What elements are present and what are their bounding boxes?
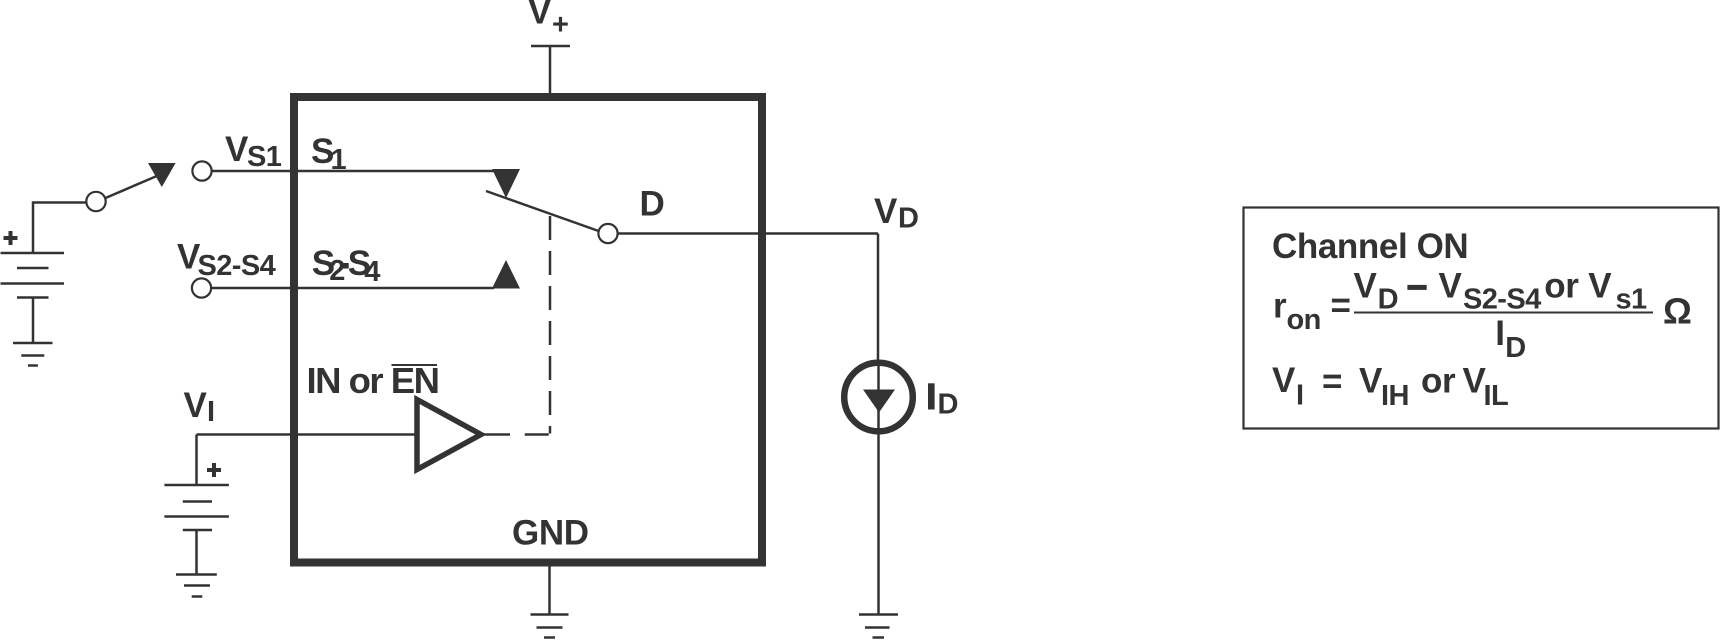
formula: VI condition — [1272, 361, 1508, 412]
node VS1 label — [225, 130, 282, 173]
switch contact S2-S4 (arrow up) — [492, 260, 520, 289]
svg-text:V: V — [1354, 267, 1378, 306]
svg-text:V: V — [1588, 267, 1612, 306]
svg-text:Channel ON: Channel ON — [1272, 227, 1468, 266]
wire VS1 to S1 contact — [212, 170, 494, 173]
svg-text:V: V — [1272, 361, 1296, 400]
svg-text:V: V — [225, 130, 249, 169]
svg-text:V: V — [1439, 267, 1463, 306]
ground (battery VI) — [176, 575, 217, 597]
svg-text:on: on — [1287, 304, 1321, 336]
svg-text:=: = — [1322, 362, 1342, 401]
ID label — [928, 383, 958, 420]
wire battery VI to ground — [195, 530, 198, 575]
wire battery source to ground — [32, 298, 35, 344]
svg-text:or: or — [1421, 362, 1456, 401]
svg-text:V: V — [1359, 362, 1383, 401]
battery VI plus sign — [207, 463, 221, 477]
ground (GND) — [531, 615, 569, 638]
svg-text:I: I — [207, 396, 214, 428]
terminal circle VS1 — [192, 161, 211, 180]
formula box — [1244, 208, 1719, 429]
V+ terminal bar — [531, 45, 570, 48]
DUT box — [294, 97, 762, 563]
node VI label — [184, 386, 215, 428]
svg-text:S1: S1 — [247, 141, 282, 173]
svg-text:IL: IL — [1484, 380, 1509, 412]
svg-text:V: V — [528, 0, 552, 32]
wire current source to ground — [877, 428, 880, 614]
wire VS2-S4 to S2-S4 contact — [211, 287, 494, 290]
wire VD down to current source — [877, 234, 880, 367]
svg-text:IH: IH — [1381, 380, 1409, 412]
battery source plus sign — [4, 231, 18, 245]
svg-text:Ω: Ω — [1663, 291, 1692, 332]
driver buffer IN or EN — [417, 400, 481, 470]
wire GND to ground — [548, 563, 551, 615]
svg-text:+: + — [552, 9, 568, 41]
switch blade S1 to D — [486, 191, 600, 232]
buffer output stub — [481, 433, 510, 436]
svg-text:D: D — [1505, 332, 1525, 364]
wire V+ to box — [549, 46, 552, 95]
svg-text:I: I — [1495, 314, 1504, 353]
switch arrow (source) — [148, 163, 176, 187]
SPDT source switch pivot — [86, 192, 105, 211]
terminal circle VS2-S4 — [192, 278, 211, 297]
svg-text:IN or EN: IN or EN — [307, 360, 439, 401]
svg-text:1: 1 — [331, 144, 347, 176]
dashed control line vertical — [549, 216, 552, 434]
svg-text:V: V — [184, 386, 208, 425]
wire switch to battery — [33, 203, 86, 254]
wire VI down to battery — [195, 435, 198, 486]
svg-text:D: D — [1378, 284, 1398, 316]
svg-text:4: 4 — [364, 256, 380, 288]
svg-text:or: or — [1544, 267, 1579, 306]
svg-text:V: V — [874, 192, 898, 231]
switch blade (source) — [106, 176, 159, 199]
ground (current source) — [859, 615, 898, 638]
pin S1 label — [311, 132, 347, 176]
svg-text:GND: GND — [512, 514, 589, 553]
svg-text:S2-S4: S2-S4 — [198, 250, 276, 282]
switch contact S1 (arrow down) — [492, 169, 520, 198]
svg-text:S2-S4: S2-S4 — [1463, 284, 1541, 316]
svg-text:2: 2 — [329, 255, 345, 287]
ground (battery source) — [13, 343, 53, 366]
overline over EN — [392, 364, 438, 366]
pin S2-S4 label — [312, 244, 381, 288]
formula: ron equation — [1273, 267, 1692, 365]
node VD label — [874, 192, 918, 235]
svg-text:D: D — [640, 185, 665, 224]
node D circle — [598, 224, 617, 243]
svg-text:s1: s1 — [1616, 284, 1648, 316]
battery source — [1, 253, 65, 298]
V+ label — [528, 0, 568, 41]
svg-text:D: D — [938, 389, 958, 421]
svg-text:D: D — [898, 203, 918, 235]
svg-text:r: r — [1273, 287, 1287, 326]
svg-text:=: = — [1331, 286, 1351, 325]
svg-text:I: I — [1296, 380, 1303, 412]
wire VI to buffer input — [197, 433, 418, 436]
dashed control line horizontal — [518, 433, 549, 436]
battery VI — [164, 485, 229, 530]
wire D to VD — [618, 232, 878, 235]
node VS2-S4 label — [177, 238, 276, 283]
current source ID — [844, 363, 913, 432]
